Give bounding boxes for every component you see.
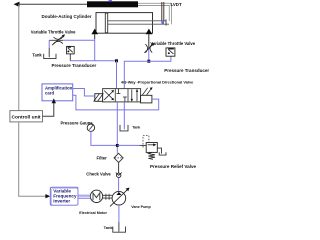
directional valve body	[103, 89, 141, 102]
svg-text:Filter: Filter	[97, 156, 108, 161]
svg-text:Variable Throttle Valve: Variable Throttle Valve	[150, 41, 195, 46]
wire left throttle line	[63, 39, 95, 41]
cylinder body	[96, 13, 153, 34]
svg-text:Pressure Transducer: Pressure Transducer	[52, 63, 97, 68]
svg-text:Double-Acting Cylinder: Double-Acting Cylinder	[42, 14, 92, 19]
feedback arrowhead	[14, 2, 20, 7]
wire valve T drop	[123, 102, 125, 129]
wire amp to left solenoid	[73, 89, 95, 97]
wire valve P drop main line	[116, 102, 118, 153]
LVDT body bar	[87, 1, 138, 7]
svg-text:Controll unit: Controll unit	[12, 114, 41, 120]
piston rod	[108, 21, 169, 24]
filter	[114, 153, 123, 162]
wire pump to tank	[118, 205, 120, 222]
wire check valve to pump	[118, 178, 120, 192]
wire control to amplification card	[43, 102, 54, 117]
pressure transducer left drop wire	[69, 54, 71, 61]
pressure relief valve pilot dashes	[143, 136, 149, 148]
wire left throttle drop to tank	[48, 40, 50, 48]
control unit box	[10, 111, 43, 122]
wire right transducer branch	[149, 56, 171, 61]
svg-text:4/3-Way -Proportional Directio: 4/3-Way -Proportional Directional Valve	[121, 80, 194, 85]
amplification card box	[42, 84, 73, 101]
LVDT bracket outer line	[138, 3, 172, 24]
wire cylinder-left drop	[94, 34, 96, 39]
pressure relief valve tank	[159, 152, 166, 155]
valve centre cell blocked ports	[116, 89, 127, 102]
piston	[105, 13, 107, 33]
wire cylinder-right drop	[148, 34, 150, 48]
tank left	[44, 54, 56, 59]
wire amp to right solenoid	[73, 95, 159, 110]
svg-text:Tank: Tank	[132, 126, 140, 130]
svg-text:card: card	[45, 91, 54, 96]
electric motor	[90, 190, 102, 202]
svg-text:Tank: Tank	[32, 53, 42, 58]
LVDT bracket inner line	[138, 6, 169, 22]
cylinder right port arrow	[146, 29, 153, 35]
check valve	[117, 173, 121, 177]
junction dot A	[115, 59, 118, 62]
pressure gauge	[87, 124, 94, 131]
cylinder left port arrow	[91, 29, 98, 35]
svg-text:Pressure Transducer: Pressure Transducer	[164, 68, 209, 73]
tank bottom	[113, 227, 126, 233]
junction dot right	[147, 60, 150, 63]
junction dot branch	[116, 144, 119, 147]
variable frequency inverter box	[50, 187, 78, 205]
pressure relief valve body	[146, 143, 157, 153]
svg-text:Variable Throttle Valve: Variable Throttle Valve	[31, 29, 76, 34]
wire branch to relief valve	[117, 144, 139, 146]
tank below valve	[120, 125, 128, 131]
wire B horizontal	[124, 61, 149, 88]
svg-text:Electrical Motor: Electrical Motor	[79, 211, 107, 215]
vane pump variable arrow	[110, 189, 128, 206]
LVDT core blue dot	[161, 22, 164, 24]
variable throttle valve left	[52, 36, 63, 46]
variable throttle valve right	[144, 44, 153, 53]
rod end cap	[165, 19, 167, 25]
feedback wire top	[16, 3, 87, 5]
wire A riser to valve	[116, 61, 118, 89]
LVDT top blue tick	[109, 0, 113, 2]
pressure relief valve spring	[148, 152, 155, 159]
inverter-motor cable	[78, 195, 90, 198]
svg-text:Vane Pump: Vane Pump	[131, 205, 151, 209]
pressure transducer left box	[67, 46, 75, 54]
LVDT core rod	[162, 2, 164, 22]
solenoid right	[141, 95, 152, 103]
svg-text:LVDT: LVDT	[171, 2, 182, 7]
svg-text:Inverter: Inverter	[53, 199, 70, 204]
vane pump	[112, 191, 126, 205]
svg-text:Pressure Relief Valve: Pressure Relief Valve	[150, 164, 196, 169]
pressure transducer right box	[166, 48, 175, 56]
feedback wire left vertical	[18, 4, 20, 110]
wire filter to check valve	[118, 163, 120, 174]
valve right cell parallel arrows	[132, 89, 137, 101]
svg-text:Check Valve: Check Valve	[86, 171, 111, 176]
wire gauge drop	[91, 131, 117, 145]
wire control to inverter	[19, 122, 46, 196]
motor-pump coupling	[103, 195, 113, 198]
pressure relief valve outlet	[157, 148, 161, 154]
svg-text:Tank: Tank	[104, 225, 114, 230]
solenoid left	[95, 94, 103, 102]
wire A horizontal	[70, 60, 116, 62]
valve left cell crossed arrows	[104, 91, 113, 100]
